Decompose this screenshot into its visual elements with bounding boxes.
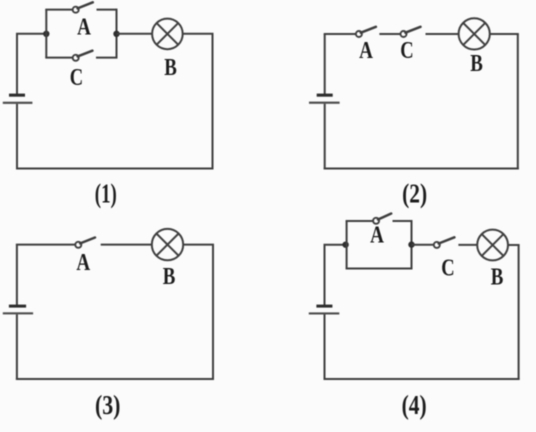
battery G3 negative plate (short thick bar): [9, 305, 26, 308]
lamp B cross stroke 1 (circuit 2): [463, 23, 485, 45]
wire: circuit 4 box left edge: [346, 221, 348, 269]
wire: circuit 2 left vertical lower segment: [324, 104, 326, 170]
wire: circuit 3 top horizontal to switch A: [16, 244, 75, 246]
circuit (1) loop: left wire upper segment: [16, 34, 18, 94]
wire: circuit 4 box bottom edge: [346, 268, 413, 270]
battery G1 positive plate (long thin bar): [3, 102, 33, 104]
wire: circuit 4 lamp to right corner: [508, 244, 520, 246]
switch C lever (circuit 1): [78, 51, 93, 57]
wire: circuit 4 top horizontal to left junction: [324, 244, 347, 246]
node: circuit 4 left junction: [342, 242, 348, 248]
svg-text:(3): (3): [95, 390, 121, 420]
lamp B cross stroke 2 (circuit 2): [463, 23, 485, 45]
svg-text:A: A: [77, 15, 91, 41]
battery G2 negative plate (short thick bar): [317, 94, 333, 97]
lamp B bulb circle (circuit 1): [152, 19, 183, 50]
wire: circuit 4 right vertical: [518, 245, 520, 380]
switch A lever (circuit 4): [378, 214, 391, 220]
wire: circuit 2 lamp to right corner: [490, 33, 519, 35]
wire: circuit 1 box top branch left segment: [45, 9, 72, 11]
lamp B bulb circle (circuit 3): [152, 229, 183, 260]
wire: circuit 4 box top branch right segment: [393, 220, 412, 222]
lamp B cross stroke 1 (circuit 4): [482, 234, 504, 256]
switch A pivot (circuit 2): [356, 31, 362, 37]
wire: circuit 1 box bottom branch left segment: [45, 57, 72, 59]
wire: circuit 2 bottom horizontal: [324, 168, 519, 170]
switch C lever (circuit 4): [439, 237, 455, 243]
switch C lever (circuit 2): [405, 27, 420, 33]
svg-text:B: B: [491, 265, 504, 291]
svg-text:(2): (2): [402, 179, 427, 209]
wire: circuit 2 right vertical: [517, 34, 519, 170]
wire: circuit 1 lamp to right corner: [183, 33, 214, 35]
wire: circuit 1 left vertical lower segment: [16, 104, 18, 170]
wire: circuit 4 left vertical lower segment: [324, 315, 326, 381]
switch A lever (circuit 3): [80, 238, 95, 244]
lamp B bulb circle (circuit 4): [477, 230, 508, 261]
battery G1 negative plate (short thick bar): [9, 94, 25, 97]
battery G4 positive plate (long thin bar): [309, 312, 340, 314]
switch A pivot (circuit 3): [75, 242, 81, 248]
svg-text:C: C: [400, 38, 413, 64]
wire: circuit 4 box top branch left segment: [346, 220, 373, 222]
wire: circuit 3 lamp to right corner: [183, 244, 214, 246]
wire: circuit 4 right junction to switch C: [412, 244, 434, 246]
battery G2 positive plate (long thin bar): [309, 102, 340, 104]
circuit (4) loop: left wire upper segment: [324, 245, 326, 305]
battery G3 positive plate (long thin bar): [3, 312, 33, 314]
wire: circuit 1 top horizontal to parallel box: [16, 33, 46, 35]
wire: circuit 3 bottom horizontal: [16, 378, 214, 380]
wire: circuit 4 bottom horizontal: [324, 378, 520, 380]
svg-text:A: A: [76, 250, 90, 276]
switch C pivot (circuit 4): [434, 242, 440, 248]
wire: circuit 2 top horizontal to switch A: [324, 33, 356, 35]
lamp B cross stroke 2 (circuit 4): [482, 234, 504, 256]
wire: circuit 3 right vertical: [212, 245, 214, 380]
switch A pivot (circuit 4): [373, 218, 379, 224]
wire: circuit 1 right vertical: [212, 34, 214, 170]
wire: circuit 1 box right edge: [116, 9, 118, 58]
lamp B cross stroke 2 (circuit 3): [156, 234, 178, 256]
wire: circuit 4 switch C to lamp: [458, 244, 477, 246]
circuit (3) loop: left wire upper segment: [16, 245, 18, 305]
wire: circuit 2 segment between switch A and switch C: [379, 33, 400, 35]
switch A pivot (circuit 1): [73, 7, 79, 13]
svg-text:B: B: [470, 51, 483, 77]
svg-text:B: B: [164, 55, 177, 81]
wire: circuit 4 box right edge: [411, 220, 413, 269]
wire: circuit 1 box left edge: [45, 10, 47, 58]
lamp B cross stroke 1 (circuit 1): [157, 23, 179, 45]
wire: circuit 3 left vertical lower segment: [16, 314, 18, 380]
svg-text:(4): (4): [402, 390, 427, 420]
wire: circuit 1 box top branch right segment: [97, 9, 117, 11]
battery G4 negative plate (short thick bar): [316, 305, 332, 308]
wire: circuit 2 switch C to lamp: [426, 33, 459, 35]
wire: circuit 1 box bottom branch right segment: [96, 57, 118, 59]
switch C pivot (circuit 2): [401, 31, 407, 37]
svg-text:A: A: [359, 38, 373, 64]
svg-text:B: B: [163, 264, 176, 290]
node: circuit 4 right junction: [408, 241, 414, 247]
circuit (2) loop: left wire upper segment: [324, 34, 326, 94]
svg-text:(1): (1): [95, 179, 117, 209]
wire: circuit 3 switch A to lamp: [101, 244, 152, 246]
svg-text:A: A: [370, 223, 384, 249]
switch C pivot (circuit 1): [73, 55, 79, 61]
svg-text:C: C: [70, 65, 83, 91]
lamp B cross stroke 1 (circuit 3): [156, 234, 178, 256]
lamp B bulb circle (circuit 2): [459, 18, 490, 49]
node: circuit 1 right junction: [113, 31, 119, 37]
wire: circuit 1 junction to lamp: [117, 33, 153, 35]
lamp B cross stroke 2 (circuit 1): [157, 23, 179, 45]
svg-text:C: C: [441, 256, 454, 282]
node: circuit 1 left junction: [43, 31, 49, 37]
wire: circuit 1 bottom horizontal: [16, 168, 214, 170]
switch A lever (circuit 1): [78, 2, 93, 8]
switch A lever (circuit 2): [361, 27, 376, 33]
